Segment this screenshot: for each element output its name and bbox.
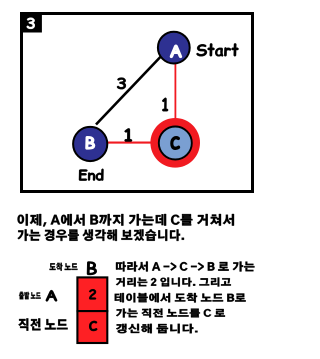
edge weight 3 on A-B xyxy=(117,78,126,90)
wire: edge A-B weight 3 (black) xyxy=(96,50,167,125)
table row node A xyxy=(46,290,57,301)
panel: white diagram box with black border xyxy=(22,14,253,192)
table cell divider xyxy=(76,310,108,312)
table cell value C xyxy=(89,321,97,331)
paragraph 1 line 1 xyxy=(18,214,235,227)
table row label: 직전 노드 xyxy=(18,318,67,330)
node C circle xyxy=(159,127,192,160)
node B label xyxy=(86,137,95,150)
table header label: 도착 노드 xyxy=(50,263,78,271)
node A label xyxy=(170,45,182,58)
node B circle xyxy=(73,127,107,161)
node B tag: End xyxy=(79,169,104,181)
table cell value 2 xyxy=(89,289,96,299)
node A circle xyxy=(158,32,190,64)
paragraph 2 line 2 xyxy=(116,278,231,287)
node A tag: Start xyxy=(196,43,238,56)
table row label: 출발 노드 xyxy=(19,292,41,300)
badge label 3 xyxy=(27,18,35,29)
paragraph 1 line 2 xyxy=(18,229,185,241)
table red cells column xyxy=(77,277,107,343)
paragraph 2 line 4 xyxy=(116,309,225,318)
edge weight 1 on B-C xyxy=(125,128,132,141)
badge: black square panel number xyxy=(20,12,42,33)
edge weight 1 on A-C xyxy=(162,98,168,111)
node C label xyxy=(171,137,180,150)
wire: edge B-C weight 1 (red) xyxy=(90,142,175,144)
paragraph 2 line 1 xyxy=(116,262,255,272)
wire: edge A-C weight 1 (red) xyxy=(174,48,176,143)
paragraph 2 line 5 xyxy=(116,324,198,334)
table header node B xyxy=(87,262,97,276)
node C highlight ring (red) xyxy=(150,118,200,168)
paragraph 2 line 3 xyxy=(115,293,246,303)
